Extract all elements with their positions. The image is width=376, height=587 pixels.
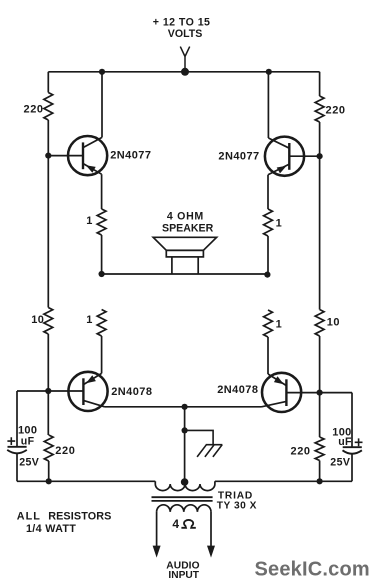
label R5 10 xyxy=(31,314,44,326)
label R7 220 xyxy=(55,445,75,457)
resistor R6 10 (right) xyxy=(315,310,324,337)
svg-text:2N4078: 2N4078 xyxy=(111,386,152,398)
junction Q3 base / left wire xyxy=(45,388,51,394)
power label +12 TO 15 VOLTS xyxy=(153,16,211,40)
svg-text:220: 220 xyxy=(24,103,44,115)
junction Q4 base / right wire xyxy=(317,390,323,396)
wire bottom rail right xyxy=(215,480,352,482)
svg-text:uF: uF xyxy=(21,435,35,447)
label Q4 2N4078 xyxy=(217,384,258,396)
junction collector center xyxy=(182,404,188,410)
wire speaker horizontal xyxy=(102,273,268,275)
resistor R8 220 (bottom right) xyxy=(315,437,324,461)
svg-text:220: 220 xyxy=(326,104,346,116)
svg-text:10: 10 xyxy=(31,314,44,326)
wire right inner down xyxy=(267,337,269,374)
note ALL RESISTORS 1/4 WATT xyxy=(17,511,112,535)
svg-text:2N4077: 2N4077 xyxy=(110,150,151,162)
label Q1 2N4077 xyxy=(110,150,151,162)
speaker LS1 xyxy=(153,237,216,274)
label Q2 2N4077 xyxy=(218,151,259,163)
svg-text:ALL: ALL xyxy=(17,511,41,523)
svg-text:uF: uF xyxy=(338,436,352,448)
label R10 1 xyxy=(276,319,282,331)
transformer T1 secondary winding xyxy=(157,505,211,512)
wire Q2 collector up xyxy=(267,72,269,138)
wire bottom collector line xyxy=(105,406,262,408)
label AUDIO INPUT xyxy=(166,560,199,581)
label R6 10 xyxy=(327,317,340,329)
svg-text:1: 1 xyxy=(86,215,92,227)
label C2 100uF xyxy=(332,427,352,448)
wire top supply rail xyxy=(48,71,319,73)
svg-text:1: 1 xyxy=(276,319,282,331)
wire bottom rail left xyxy=(17,480,155,482)
label C1 100uF xyxy=(18,425,37,448)
wire C2 branch xyxy=(351,393,353,448)
svg-text:1/4 WATT: 1/4 WATT xyxy=(26,523,76,535)
label R3 1 xyxy=(86,215,92,227)
svg-text:1: 1 xyxy=(276,217,282,229)
label secondary 4 ohms xyxy=(172,517,195,531)
junction Q2 base / right wire xyxy=(317,153,323,159)
wire left outer mid2 xyxy=(47,334,49,435)
wire secondary right lead xyxy=(210,512,212,546)
svg-text:2N4077: 2N4077 xyxy=(218,151,259,163)
transistor Q1 2N4077 (top left) xyxy=(48,136,107,175)
wire left outer bottom xyxy=(48,461,50,481)
wire left inner to speaker xyxy=(101,235,103,274)
label T1 TRIAD TY 30 X xyxy=(217,490,257,511)
svg-text:TRIAD: TRIAD xyxy=(218,490,253,501)
resistor R9 1 (left lower) xyxy=(97,310,106,337)
wire C1 branch xyxy=(16,391,18,447)
label R8 220 xyxy=(291,446,311,458)
svg-text:TY 30 X: TY 30 X xyxy=(217,501,257,512)
wire right outer mid2 xyxy=(319,336,321,437)
wire left outer top xyxy=(47,72,49,93)
label C1 25V xyxy=(19,456,39,468)
junction top rail / power input xyxy=(181,68,189,76)
capacitor C1 100uF 25V xyxy=(7,447,27,482)
junction top rail / right inner xyxy=(266,69,272,75)
svg-text:4: 4 xyxy=(172,517,179,531)
junction T1 center tap xyxy=(181,478,189,486)
ground chassis symbol xyxy=(185,430,223,457)
wire left outer mid1 xyxy=(47,120,49,308)
svg-text:220: 220 xyxy=(55,445,75,457)
transistor Q3 2N4078 (bottom left) xyxy=(17,372,108,411)
svg-text:25V: 25V xyxy=(330,456,350,468)
junction ground branch xyxy=(182,427,188,433)
capacitor C2 100uF 25V xyxy=(343,447,362,481)
resistor R5 10 (left) xyxy=(44,308,53,335)
svg-text:4 OHM: 4 OHM xyxy=(167,211,204,223)
junction Q1 base / left wire xyxy=(45,153,51,159)
wire left inner down xyxy=(101,336,103,373)
svg-text:10: 10 xyxy=(327,317,340,329)
resistor R4 1 (right upper) xyxy=(264,209,273,236)
power input terminal Y xyxy=(180,47,189,72)
junction top rail / left inner xyxy=(99,69,105,75)
svg-text:RESISTORS: RESISTORS xyxy=(48,511,111,523)
wire center tap vertical xyxy=(184,407,186,482)
junction speaker left xyxy=(99,271,105,277)
watermark SeekIC.com xyxy=(255,559,370,581)
resistor R7 220 (bottom left) xyxy=(44,435,53,461)
resistor R10 1 (right lower) xyxy=(264,310,273,337)
resistor R1 220 (top left) xyxy=(44,93,53,120)
svg-text:SeekIC.com: SeekIC.com xyxy=(255,559,370,581)
svg-text:2N4078: 2N4078 xyxy=(217,384,258,396)
label R2 220 xyxy=(326,104,346,116)
label 4 OHM SPEAKER xyxy=(162,211,214,235)
svg-text:1: 1 xyxy=(86,314,92,326)
label R4 1 xyxy=(276,217,282,229)
wire secondary left lead xyxy=(156,512,158,546)
wire right outer mid1 xyxy=(319,122,321,310)
transistor Q2 2N4077 (top right) xyxy=(265,137,320,176)
svg-text:220: 220 xyxy=(291,446,311,458)
junction bottom rail / R8 xyxy=(317,478,323,484)
label C1 plus xyxy=(7,437,15,445)
svg-text:25V: 25V xyxy=(19,456,39,468)
label R1 220 xyxy=(24,103,44,115)
resistor R3 1 (left upper) xyxy=(97,209,106,235)
junction speaker right xyxy=(264,272,270,278)
label C2 plus xyxy=(355,438,363,446)
label C2 25V xyxy=(330,456,350,468)
wire right inner to speaker xyxy=(267,236,269,274)
arrow secondary right xyxy=(207,546,215,558)
transformer T1 core xyxy=(152,497,213,501)
transformer T1 primary winding xyxy=(155,481,215,490)
svg-text:VOLTS: VOLTS xyxy=(168,28,203,40)
wire Q2 emitter down xyxy=(267,175,269,209)
svg-text:+ 12 TO 15: + 12 TO 15 xyxy=(153,16,211,28)
wire Q1 collector up xyxy=(101,72,103,138)
label R9 1 xyxy=(86,314,92,326)
wire right outer top xyxy=(319,72,321,96)
label Q3 2N4078 xyxy=(111,386,152,398)
arrow secondary left xyxy=(153,546,161,558)
wire Q1 emitter down xyxy=(101,174,103,209)
junction bottom rail / R7 xyxy=(46,478,52,484)
svg-text:INPUT: INPUT xyxy=(168,570,199,581)
transistor Q4 2N4078 (bottom right) xyxy=(262,373,353,412)
resistor R2 220 (top right) xyxy=(315,96,324,122)
svg-text:SPEAKER: SPEAKER xyxy=(162,223,214,235)
wire right outer bottom xyxy=(319,461,321,482)
